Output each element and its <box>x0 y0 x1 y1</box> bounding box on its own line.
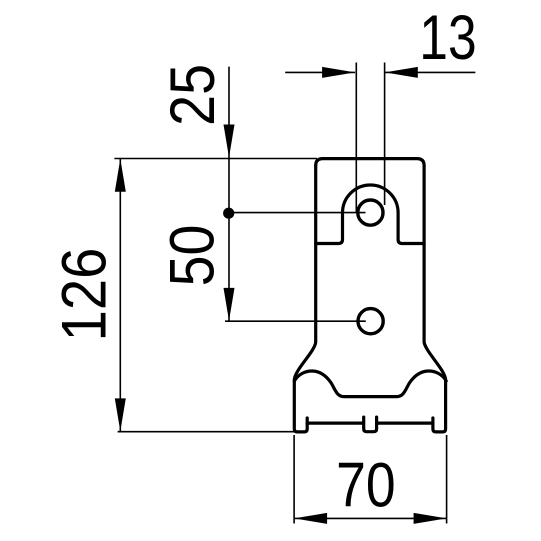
leader: hole1 center <box>229 212 366 214</box>
arrow: dim 70 right, pointing right <box>414 513 447 524</box>
svg-text:25: 25 <box>157 64 228 126</box>
hole 1 (upper, dia 13) <box>358 200 383 225</box>
dimension line 13 left segment <box>285 71 355 73</box>
extension line: top edge level (for 25 and 126) <box>114 158 317 160</box>
svg-text:50: 50 <box>156 225 227 287</box>
inner serrated bottom line with tabs <box>307 417 433 432</box>
extension line: bottom edge level (for 126) <box>118 431 295 433</box>
arrowheads (filled) <box>115 67 447 524</box>
part outline: bracket body <box>294 159 446 432</box>
origin dot on dim line at hole1 level <box>223 208 234 219</box>
wire: outer contour right side <box>424 166 446 432</box>
wire: top edge with rounded corners <box>316 159 424 166</box>
arrow: dim 126 top, pointing up <box>115 159 126 192</box>
arrow: dim 70 left, pointing left <box>294 513 327 524</box>
dimension line 13 right segment <box>385 71 476 73</box>
dimension line 25/50 vertical <box>228 67 230 321</box>
extension line: hole1 left tangent (for 13) <box>355 63 357 213</box>
dimension lines (thin) <box>114 63 475 524</box>
leader: hole2 center <box>225 320 366 322</box>
arrow: dim 50, pointing down <box>224 288 235 321</box>
svg-text:126: 126 <box>49 248 120 342</box>
arrow: dim 13 right, pointing left <box>385 67 418 78</box>
arrow: dim 25, pointing down <box>224 125 235 158</box>
wire: outer contour left side <box>294 166 315 432</box>
extension line: hole1 right tangent (for 13) <box>384 63 386 206</box>
dimension line 126 vertical <box>119 159 121 432</box>
extension line: base left (for 70) <box>293 435 295 524</box>
arrow: dim 126 bottom, pointing down <box>115 398 126 431</box>
svg-text:70: 70 <box>336 450 395 520</box>
arch over upper hole with legs and shoulders <box>316 185 424 243</box>
dimension line 70 horizontal <box>294 517 447 519</box>
arrow: dim 13 left, pointing right <box>322 67 355 78</box>
hole 2 (lower, dia 13) <box>358 309 383 334</box>
extension line: base right (for 70) <box>446 435 448 524</box>
svg-text:13: 13 <box>419 3 476 73</box>
wavy stiffening bead line in base <box>294 371 446 397</box>
